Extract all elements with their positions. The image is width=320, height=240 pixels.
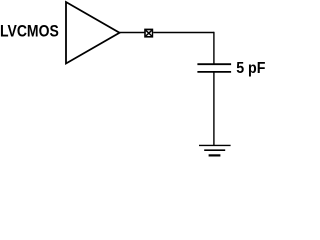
buffer U1 (LVCMOS driver triangle) <box>66 2 120 64</box>
svg-text:LVCMOS: LVCMOS <box>0 23 59 41</box>
svg-text:5 pF: 5 pF <box>236 60 265 77</box>
ground symbol <box>199 145 231 155</box>
wire from capacitor bottom to ground <box>213 72 215 145</box>
node marker (boxed X test point) <box>144 29 153 38</box>
wire from node marker to corner <box>153 32 214 34</box>
capacitor C (5 pF) bottom plate <box>197 71 231 73</box>
wire corner down to capacitor top <box>213 32 215 64</box>
capacitor C (5 pF) top plate <box>197 63 231 65</box>
wire from buffer output to node marker <box>120 32 145 34</box>
